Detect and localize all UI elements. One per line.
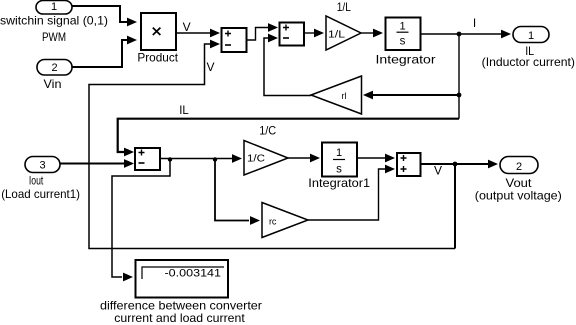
gain 1/L [326,16,361,50]
sum Sum4 (+ +) [397,153,421,176]
wire branch down to Display [112,159,170,282]
integrator1 block (1/s) [322,143,357,177]
label: difference between converter current and load current [100,298,262,325]
gain 1/C [244,141,288,176]
wire IL line down to Sum3 plus input, node IL [118,103,459,156]
junction dot rc branch [213,157,217,161]
outport 1 (IL) [513,27,549,43]
inport 1 (switching signal) [36,1,72,15]
wire Sum2 to gain 1/L [304,29,324,38]
svg-text:-0.003141: -0.003141 [165,268,222,280]
wire Integrator to outport 1, node I [421,16,512,38]
svg-text:(Load current1): (Load current1) [1,187,80,201]
wire Sum1 to Sum2 [247,23,279,40]
svg-text:1/C: 1/C [259,124,276,138]
wire into gain rl [363,91,459,100]
label: IL (Inductor current) [482,44,575,69]
svg-text:V: V [434,164,442,178]
wire Sum3 output to gain 1/C [160,154,242,163]
wire Product output to Sum1, node V [176,20,220,37]
svg-text:switchin signal (0,1): switchin signal (0,1) [0,14,108,28]
svg-text:Integrator: Integrator [376,53,436,67]
svg-text:current and load current: current and load current [114,311,245,325]
label: Iout (Load current1) [1,174,80,201]
svg-text:(output voltage): (output voltage) [475,189,562,203]
svg-text:2: 2 [51,62,57,74]
product block [141,13,176,50]
svg-text:2: 2 [516,161,522,173]
wire from inport 2 to Product input 2 [72,36,137,67]
svg-text:V: V [206,60,214,74]
wire gain 1/L to Integrator [361,29,383,38]
label: switchin signal (0,1) PWM [0,14,108,45]
svg-text:Vin: Vin [44,77,62,91]
wire Sum4 to outport 2, node V [421,160,499,178]
wire I branch down to IL line [458,34,460,119]
wire branch down to gain rc [215,159,260,225]
inport 2 (Vin) [37,60,72,76]
integrator block (1/s) [386,18,421,51]
junction dot at V branch [453,162,458,167]
svg-text:PWM: PWM [42,30,66,44]
wire gain 1/C to Integrator1 [288,154,320,163]
junction dot display branch [168,157,172,161]
svg-text:s: s [400,36,406,48]
svg-text:Integrator1: Integrator1 [308,176,370,190]
svg-text:Product: Product [137,51,178,65]
wire from inport 3 to Sum3 minus input [60,159,134,168]
svg-text:IL: IL [179,103,189,117]
wire gain rc output to Sum4 input 2 [308,165,395,220]
svg-text:Iout: Iout [29,174,44,188]
svg-text:1: 1 [528,30,534,42]
inport 3 (Iout) [25,157,60,173]
wire V feedback from Vout branch down, left, up to Sum1 minus input, node V [89,40,455,249]
svg-text:rc: rc [269,217,277,227]
svg-text:1: 1 [336,147,342,159]
svg-text:1/C: 1/C [247,154,265,165]
wire from inport 1 to Product input 1 [72,6,137,26]
svg-text:1: 1 [51,1,57,13]
junction dot at rl branch [457,93,462,98]
wire gain rl output to Sum2 minus input [264,34,311,96]
svg-text:1/L: 1/L [328,30,346,41]
display block (-0.003141) [136,260,229,298]
sum Sum3 (+ -) [135,148,160,170]
label: Vout (output voltage) [475,176,562,203]
svg-text:V: V [183,20,191,34]
sum Sum2 (+ -) [280,23,305,46]
wire Integrator1 to Sum4 input 1 [357,154,395,163]
svg-text:s: s [336,164,342,176]
svg-text:rl: rl [342,91,347,101]
svg-text:(Inductor current): (Inductor current) [482,55,575,69]
svg-text:1: 1 [399,21,405,33]
svg-text:I: I [473,16,476,30]
gain rc [262,203,308,238]
gain rl (points left) [311,76,362,114]
sum Sum1 (+ -) [222,28,247,52]
svg-text:1/L: 1/L [337,0,351,14]
junction dot at I branch [457,32,462,37]
outport 2 (Vout) [500,157,538,174]
svg-text:3: 3 [39,160,45,172]
